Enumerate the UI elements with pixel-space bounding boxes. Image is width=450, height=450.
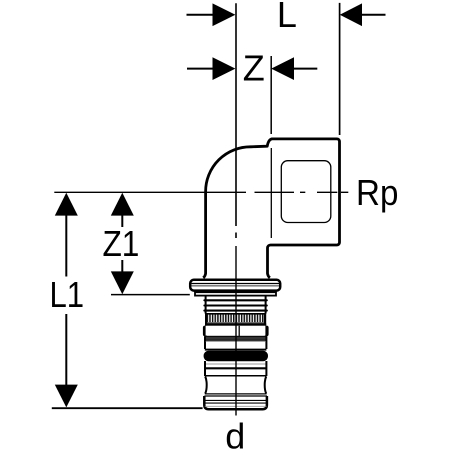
dimension L1 shaft upper xyxy=(65,214,67,277)
dimension L1 shaft lower xyxy=(65,314,67,386)
faint line upper band xyxy=(206,341,266,343)
thread ridge 2 xyxy=(204,304,266,306)
dimension Z1 arrow up xyxy=(111,193,134,216)
thread ridge 1 xyxy=(204,299,266,301)
svg-text:Z1: Z1 xyxy=(102,223,139,264)
sleeve ring right cap xyxy=(264,326,268,337)
knurl ring bottom edge xyxy=(205,323,266,325)
svg-text:Rp: Rp xyxy=(356,172,398,213)
press end right edge upper xyxy=(265,296,267,314)
body edge left band1 xyxy=(204,336,206,349)
wire dimension Z shaft left xyxy=(187,68,214,70)
datum line L1 bottom xyxy=(52,407,203,409)
vertical centerline upper segment xyxy=(235,3,237,226)
body edge left band2 xyxy=(204,361,206,376)
waist right edge xyxy=(265,377,267,394)
cap line 2 xyxy=(205,402,267,404)
dark gasket band xyxy=(205,336,266,340)
wire dimension Z shaft right xyxy=(293,68,317,70)
o-ring xyxy=(204,351,268,361)
dimension L1 arrow up xyxy=(55,193,78,216)
arrowhead Z right xyxy=(271,57,294,80)
horizontal centerline Rp port xyxy=(54,191,246,193)
flange inner line 2 xyxy=(192,285,280,287)
svg-text:L1: L1 xyxy=(50,274,85,315)
dimension Z1 shaft lower xyxy=(121,260,123,273)
vertical centerline lower segment xyxy=(235,246,237,416)
knurl ring stripes xyxy=(207,314,265,322)
extension line socket end x=339.6 xyxy=(339,3,341,135)
sleeve ring white band xyxy=(206,326,266,336)
knurl ring top edge xyxy=(205,313,266,315)
dimension Z1 arrow down xyxy=(111,271,134,294)
wire dimension L shaft right xyxy=(361,14,386,16)
press end left edge upper xyxy=(205,296,207,314)
cap line 1 xyxy=(205,399,267,401)
socket inner opening xyxy=(281,161,331,223)
svg-text:L: L xyxy=(277,0,297,35)
sleeve seam tick xyxy=(238,326,240,336)
arrowhead Z left xyxy=(213,57,236,80)
sleeve ring left cap xyxy=(203,326,207,337)
black ring line xyxy=(205,349,267,351)
thread ridge 3 xyxy=(204,310,266,312)
datum line Z1 bottom xyxy=(111,294,190,296)
flange lower collar xyxy=(195,292,276,295)
socket bore line xyxy=(270,148,272,238)
flange inner line 1 xyxy=(192,283,280,285)
body edge right band1 xyxy=(265,336,267,349)
wire dimension L shaft left xyxy=(187,14,215,16)
body edge right band2 xyxy=(265,361,267,376)
extension line socket shoulder x=271 xyxy=(270,56,272,134)
waist bottom line 2 xyxy=(204,395,267,397)
flange xyxy=(190,280,280,291)
bottom cap outline xyxy=(204,396,267,409)
waist bottom line 1 xyxy=(205,393,267,395)
svg-text:Z: Z xyxy=(243,48,265,89)
faint line under o-ring xyxy=(206,363,266,365)
fitting elbow outline upper xyxy=(203,139,272,278)
waist left edge xyxy=(205,377,207,394)
thin line top of waist xyxy=(205,375,267,377)
vertical centerline dot xyxy=(235,233,237,239)
fitting socket outline xyxy=(268,139,340,278)
knurl ring right edge xyxy=(264,313,266,325)
cap faint line xyxy=(205,405,267,407)
arrowhead L right xyxy=(340,3,362,26)
ring line lower xyxy=(205,367,267,369)
knurl ring left edge xyxy=(205,313,207,325)
arrowhead L left xyxy=(213,3,236,26)
dimension Z1 shaft upper xyxy=(121,214,123,227)
dimension L1 arrow down xyxy=(55,385,78,408)
svg-text:d: d xyxy=(225,416,245,450)
